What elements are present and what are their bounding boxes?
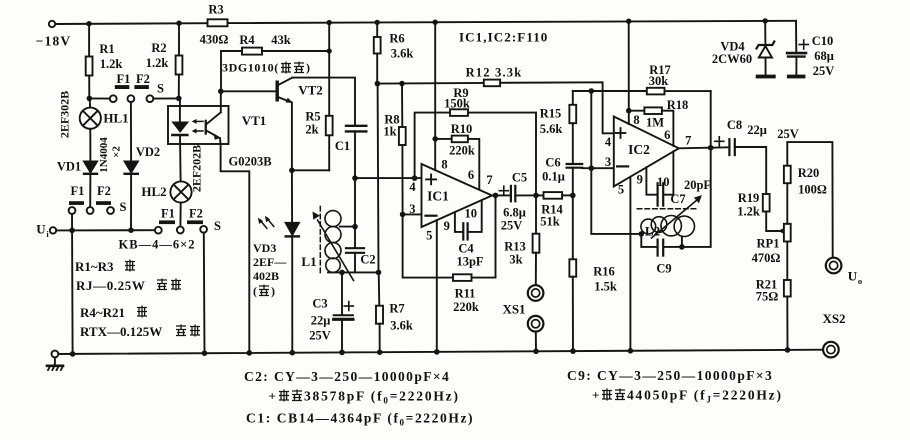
svg-text:VD2: VD2 <box>136 145 160 159</box>
wire C1 bottom to pin4 row <box>354 131 356 178</box>
svg-text:6.8μ: 6.8μ <box>503 206 526 220</box>
svg-text:R1~R3: R1~R3 <box>75 259 114 274</box>
svg-text:22μ: 22μ <box>747 123 767 137</box>
svg-text:7: 7 <box>685 134 691 148</box>
svg-text:2CW60: 2CW60 <box>712 52 752 66</box>
wire R6 column down to R7 <box>377 84 380 273</box>
svg-text:VD3: VD3 <box>253 241 276 255</box>
node C1 column L1 junction <box>352 224 358 230</box>
svg-text:G0203B: G0203B <box>228 155 271 169</box>
fuse row 2 middle terminal <box>87 207 94 214</box>
node R13 top <box>533 193 539 199</box>
wire 591 column <box>591 91 641 234</box>
svg-text:51k: 51k <box>540 215 560 229</box>
IC1 plus input symbol <box>426 175 436 185</box>
svg-text:HL2: HL2 <box>141 184 166 199</box>
C10 plus sign <box>799 40 808 49</box>
svg-text:R1: R1 <box>99 42 114 56</box>
svg-text:R16: R16 <box>593 265 615 279</box>
resistor R9 loop <box>415 109 536 195</box>
resistor R3 <box>208 19 228 26</box>
RP1 wiper arrow <box>778 228 784 233</box>
svg-text:R15: R15 <box>540 107 562 121</box>
svg-text:R5: R5 <box>305 110 320 124</box>
terminal Uo <box>826 258 842 274</box>
transistor VT2 base wire <box>221 90 276 92</box>
svg-text:44050pF (fJ=2220Hz): 44050pF (fJ=2220Hz) <box>627 388 783 405</box>
svg-text:2EF302B: 2EF302B <box>58 91 72 138</box>
L1 adjust arrow <box>313 212 354 281</box>
svg-text:C2: C2 <box>360 253 375 267</box>
resistor R5 <box>326 23 333 171</box>
svg-text:25V: 25V <box>309 329 331 343</box>
node pin4 row at C1 column <box>352 175 358 181</box>
diode VD3 <box>286 170 299 352</box>
svg-text:IC1: IC1 <box>427 189 449 204</box>
svg-text:1.2k: 1.2k <box>737 205 760 219</box>
resistor R4 <box>221 48 329 92</box>
resistor R6 <box>374 22 381 83</box>
svg-text:C7: C7 <box>670 192 685 206</box>
resistor R16 <box>569 195 576 351</box>
svg-text:3: 3 <box>605 155 611 169</box>
node L2 right on C9 row <box>679 244 685 250</box>
capacitor C1 <box>346 126 366 132</box>
wire VT1 collector up <box>220 91 222 112</box>
svg-text:75Ω: 75Ω <box>756 290 779 304</box>
svg-text:): ) <box>306 61 310 75</box>
node emitter R5 junction <box>289 168 295 174</box>
svg-text:2k: 2k <box>305 123 318 137</box>
svg-text:25V: 25V <box>813 64 835 78</box>
svg-text:C9: C9 <box>656 262 671 276</box>
node Ui row left junction <box>69 228 75 234</box>
wire Ui row <box>56 229 155 231</box>
svg-text:+: + <box>269 389 276 404</box>
resistor R17 <box>647 88 665 95</box>
node VT1 collector R4 junction <box>218 89 224 95</box>
svg-text:2EF202B: 2EF202B <box>190 145 204 192</box>
wire S column to ground rail <box>203 233 206 353</box>
svg-text:220k: 220k <box>453 300 479 314</box>
terminal ground left <box>52 351 59 358</box>
svg-text:HL1: HL1 <box>103 111 128 126</box>
fuse row 2 F1 terminal <box>69 207 76 214</box>
svg-text:20pF: 20pF <box>684 178 711 192</box>
C8 plus sign <box>715 137 724 146</box>
svg-text:430Ω: 430Ω <box>200 33 229 47</box>
svg-text:9: 9 <box>637 173 643 187</box>
svg-text:R7: R7 <box>389 302 404 316</box>
inductor L2 <box>641 216 695 237</box>
svg-text:S: S <box>120 200 127 214</box>
svg-text:22μ: 22μ <box>311 314 331 328</box>
wire fuse row to R2 <box>153 97 178 99</box>
svg-text:F1: F1 <box>161 207 175 221</box>
svg-text:3DG1010(: 3DG1010( <box>222 61 279 75</box>
C10 ground bar <box>787 75 806 79</box>
svg-text:L2: L2 <box>645 224 660 239</box>
wire VT2 emitter down <box>291 103 293 171</box>
capacitor C2 <box>346 248 364 253</box>
VD4 ground bar <box>756 75 776 79</box>
node L2 left <box>639 231 645 237</box>
resistor R13 <box>533 195 540 284</box>
wire C5 to R14 <box>515 194 543 196</box>
svg-text:C1: C1 <box>335 139 350 153</box>
wire L1 top tap <box>340 226 355 228</box>
C3 plus sign <box>344 302 353 311</box>
svg-text:L1: L1 <box>301 254 316 269</box>
wire C2 bottom <box>354 253 356 273</box>
IC1 minus input symbol <box>426 215 437 217</box>
wire pin8 column from rail <box>434 22 436 170</box>
svg-text:R2: R2 <box>151 41 166 55</box>
wire left column to ground rail <box>71 214 74 354</box>
capacitor C8 <box>729 139 734 155</box>
VD3 light arrows <box>258 216 274 229</box>
svg-text:C5: C5 <box>512 171 527 185</box>
svg-text:F2: F2 <box>97 184 111 198</box>
wire C6 bottom to R14 node <box>572 168 574 196</box>
svg-text:43k: 43k <box>271 33 291 47</box>
capacitor C9 <box>658 240 664 256</box>
resistor R11 loop <box>403 195 496 281</box>
svg-text:2EF—: 2EF— <box>253 255 287 269</box>
fuse F1 bar <box>115 85 130 89</box>
svg-text:68μ: 68μ <box>814 49 834 63</box>
wire C9 row <box>641 91 710 247</box>
svg-text:1.2k: 1.2k <box>146 56 169 70</box>
svg-text:6: 6 <box>468 168 474 182</box>
wire L1 bottom row <box>328 271 379 273</box>
svg-text:220k: 220k <box>449 144 475 158</box>
svg-text:C6: C6 <box>545 156 560 170</box>
svg-text:25V: 25V <box>777 127 799 141</box>
resistor R12 <box>484 80 500 87</box>
resistor R8 <box>399 84 406 215</box>
svg-text:0.1μ: 0.1μ <box>542 170 565 184</box>
svg-text:C1: CB14—4364pF (f0=2220Hz): C1: CB14—4364pF (f0=2220Hz) <box>246 411 474 428</box>
fuse F2 bar <box>134 85 149 89</box>
IC2 plus input symbol <box>616 128 626 138</box>
fuse F2 right terminal S <box>147 95 154 102</box>
wire C8 to R19 <box>735 147 766 194</box>
fuse row 3 F1 bar <box>159 220 175 224</box>
resistor R1 <box>86 24 93 99</box>
wire R5 bottom to VT2 emitter <box>292 169 329 171</box>
ground symbol <box>47 357 63 370</box>
svg-text:7: 7 <box>486 173 492 187</box>
wire IC2 pin8 column <box>628 21 630 124</box>
svg-text:1.5k: 1.5k <box>594 280 617 294</box>
svg-text:RP1: RP1 <box>757 237 780 251</box>
node top rail junction at pin8 column <box>433 20 438 25</box>
svg-text:C4: C4 <box>458 242 474 256</box>
svg-text:5: 5 <box>426 229 432 243</box>
svg-text:U: U <box>36 222 46 237</box>
svg-text:(: ( <box>253 284 257 298</box>
svg-text:13pF: 13pF <box>456 255 483 269</box>
svg-text:4: 4 <box>409 180 416 194</box>
wire VT1 emitter to ground rail <box>221 144 250 353</box>
node R6 bottom on bus <box>375 81 381 87</box>
node top rail junction at R6 <box>375 20 380 25</box>
wire top rail left of R3 <box>55 22 207 25</box>
optocoupler light arrows <box>192 119 203 134</box>
resistor R10 loop <box>435 136 479 191</box>
L2 adjust arrow <box>652 195 702 238</box>
svg-text:R6: R6 <box>389 32 404 46</box>
node VD2 bottom on Ui row <box>128 227 134 233</box>
resistor R2 <box>176 23 183 98</box>
fuse row 3 S terminal <box>200 226 207 233</box>
fuse row 2 F1 bar <box>69 201 84 205</box>
svg-text:R10: R10 <box>451 122 473 136</box>
lamp HL2 <box>170 181 191 226</box>
svg-text:C10: C10 <box>812 34 834 48</box>
node row A at 591 column <box>589 88 595 94</box>
svg-text:100Ω: 100Ω <box>798 183 827 197</box>
diode VD1 <box>84 162 97 208</box>
node top rail junction at R5 column <box>327 20 332 25</box>
ground rail bottom <box>58 350 823 354</box>
svg-text:XS2: XS2 <box>822 311 845 326</box>
fuse row 3 middle terminal <box>177 227 184 234</box>
node tank output column <box>708 145 714 151</box>
svg-text:F2: F2 <box>189 207 203 221</box>
wire feedback row A (R17 row) <box>573 90 711 92</box>
svg-text:R11: R11 <box>455 287 476 301</box>
svg-text:R3: R3 <box>208 3 223 17</box>
svg-text:): ) <box>271 284 275 298</box>
wire IC1 pin5 to ground <box>436 220 438 352</box>
svg-text:RTX—0.125W: RTX—0.125W <box>80 324 162 339</box>
capacitor C10 <box>787 21 806 75</box>
svg-text:C8: C8 <box>727 118 742 132</box>
svg-text:VD1: VD1 <box>57 160 81 174</box>
resistor R20 <box>784 142 833 257</box>
node R10 left <box>432 136 438 142</box>
svg-text:6: 6 <box>664 128 670 142</box>
svg-text:F1: F1 <box>117 72 131 86</box>
ground rail junction nodes <box>70 347 791 357</box>
wire L2 right down <box>681 236 683 247</box>
wire bus R12 row <box>377 82 613 133</box>
wire C1 column down to C2 <box>354 178 356 247</box>
wire IC1 pin4 row <box>355 177 422 179</box>
svg-text:10: 10 <box>657 175 670 189</box>
svg-text:10: 10 <box>464 207 477 221</box>
svg-text:R19: R19 <box>738 191 760 205</box>
fuse row 2 right terminal <box>107 207 114 214</box>
svg-text:150k: 150k <box>444 97 470 111</box>
fuse row 2 F2 bar <box>96 201 111 205</box>
svg-text:25V: 25V <box>501 219 523 233</box>
svg-text:5.6k: 5.6k <box>540 122 563 136</box>
svg-text:S: S <box>214 219 221 233</box>
inductor L2 core dashed <box>637 208 696 210</box>
op-amp IC1 <box>422 164 493 227</box>
svg-text:KB—4—6×2: KB—4—6×2 <box>119 238 196 252</box>
svg-text:VT1: VT1 <box>242 113 267 128</box>
node R7 top <box>376 270 382 276</box>
zener VD4 <box>757 21 775 75</box>
svg-text:3.6k: 3.6k <box>391 47 414 61</box>
node R1 bottom <box>87 96 93 102</box>
socket XS1 terminal A <box>528 285 544 301</box>
svg-text:5: 5 <box>618 183 624 197</box>
svg-text:XS1: XS1 <box>502 302 525 317</box>
svg-text:1M: 1M <box>646 116 664 130</box>
svg-text:1N4004: 1N4004 <box>98 137 110 173</box>
wire VT2 collector to C1 <box>292 78 355 126</box>
optocoupler VT1 box <box>168 106 229 144</box>
socket XS2 terminal <box>823 342 839 358</box>
lamp HL1 <box>80 98 101 128</box>
svg-text:o: o <box>858 276 862 286</box>
svg-text:−18V: −18V <box>36 34 72 49</box>
capacitor C4 with pin9 pin10 stubs <box>455 200 482 239</box>
node pin3 row at 591 <box>589 165 595 171</box>
svg-text:8: 8 <box>441 158 447 172</box>
svg-text:8: 8 <box>633 113 639 127</box>
resistor R19 <box>763 194 780 231</box>
node R14 right <box>570 193 576 199</box>
inductor L1 core dashed <box>319 207 321 276</box>
svg-text:IC2: IC2 <box>628 142 650 157</box>
node top rail junction at R2 <box>176 21 181 26</box>
wire IC2 pin5 to ground <box>629 177 631 351</box>
svg-text:U: U <box>848 269 858 284</box>
node R8 bottom pin3 <box>400 212 406 218</box>
svg-text:4: 4 <box>605 135 612 149</box>
svg-text:3: 3 <box>409 202 415 216</box>
svg-text:R20: R20 <box>798 166 820 180</box>
svg-text:C3: C3 <box>312 297 327 311</box>
wire pin3 row IC2 <box>582 167 614 169</box>
terminal Ui <box>50 227 56 233</box>
svg-text:1.2k: 1.2k <box>100 57 123 71</box>
node R9 left on pin4 row <box>412 175 418 181</box>
fuse middle terminal <box>127 95 134 102</box>
svg-text:38578pF (f0=2220Hz): 38578pF (f0=2220Hz) <box>304 389 460 406</box>
wire R1 to fuse row <box>89 97 109 99</box>
svg-text:30k: 30k <box>649 74 669 88</box>
fuse row 3 F2 bar <box>187 220 203 224</box>
node top rail junction at VD4 <box>763 18 768 23</box>
svg-text:470Ω: 470Ω <box>752 251 781 265</box>
capacitor C3 <box>334 272 353 352</box>
op-amp IC2 <box>614 117 679 187</box>
svg-text:S: S <box>157 82 164 96</box>
node C3 top <box>339 270 345 276</box>
inductor L1 <box>325 211 341 273</box>
node R8 top on bus <box>399 81 405 87</box>
resistor R18 <box>629 107 674 145</box>
optocoupler phototransistor <box>205 112 221 144</box>
svg-text:F1: F1 <box>71 184 85 198</box>
resistor R14 <box>544 192 573 199</box>
svg-text:402B: 402B <box>253 269 279 283</box>
node R4 right on R5 column <box>327 48 332 53</box>
wire HL1 to VD1 <box>89 129 91 162</box>
svg-text:+: + <box>592 388 599 403</box>
wire XS1 to ground rail <box>535 332 537 352</box>
svg-text:F2: F2 <box>136 72 150 86</box>
svg-text:3k: 3k <box>509 253 522 267</box>
svg-text:9: 9 <box>444 219 450 233</box>
capacitor C7 with pin9 pin10 stubs <box>646 151 673 205</box>
resistor R15 <box>569 91 576 163</box>
transistor VT2 <box>276 78 293 103</box>
svg-text:×2: ×2 <box>111 146 123 158</box>
C5 plus sign <box>499 186 508 195</box>
fuse F1 holder terminal <box>110 95 117 102</box>
wire top rail right of R3 <box>228 21 797 23</box>
svg-text:R18: R18 <box>667 98 689 112</box>
node IC1 output <box>493 193 499 199</box>
svg-text:C2: CY—3—250—10000pF×4: C2: CY—3—250—10000pF×4 <box>244 369 450 384</box>
svg-text:R12 3.3k: R12 3.3k <box>466 66 523 80</box>
optocoupler LED <box>172 98 187 181</box>
resistor R7 <box>376 272 383 352</box>
svg-text:RJ—0.25W: RJ—0.25W <box>76 278 145 293</box>
capacitor C5 <box>511 186 515 201</box>
wire IC2 output row <box>679 147 728 148</box>
fuse row 3 left terminal <box>155 227 162 234</box>
svg-text:C9: CY—3—250—10000pF×3: C9: CY—3—250—10000pF×3 <box>567 368 773 383</box>
svg-text:R4: R4 <box>239 33 255 47</box>
capacitor C6 <box>567 164 583 168</box>
node top rail junction at IC2 pin8 column <box>626 19 631 24</box>
node R18 left <box>626 108 632 114</box>
svg-text:IC1,IC2:F110: IC1,IC2:F110 <box>459 30 548 45</box>
potentiometer RP1 <box>784 224 791 242</box>
diode VD2 <box>125 102 138 230</box>
svg-text:R13: R13 <box>504 240 526 254</box>
svg-text:3.6k: 3.6k <box>390 319 413 333</box>
resistor R21 <box>784 242 791 351</box>
wire output to C5 <box>492 194 510 196</box>
svg-text:1k: 1k <box>383 125 396 139</box>
terminal -18V input <box>49 21 55 27</box>
svg-text:R4~R21: R4~R21 <box>80 305 125 320</box>
node top rail junction at R1 <box>86 21 91 26</box>
socket XS1 terminal B <box>528 316 544 332</box>
svg-text:VT2: VT2 <box>298 83 323 98</box>
IC2 minus input symbol <box>617 165 628 167</box>
wire IC1 pin3 row <box>403 213 422 215</box>
node R2 bottom <box>176 96 182 102</box>
